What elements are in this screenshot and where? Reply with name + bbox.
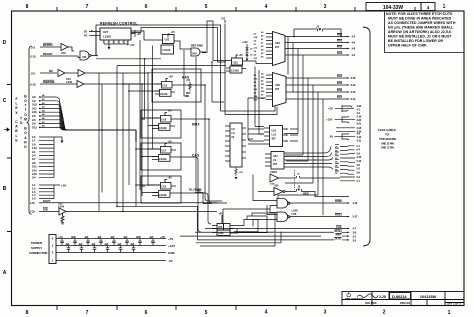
svg-text:.1μF: .1μF — [123, 236, 128, 239]
flex cable to top board label — [378, 128, 397, 141]
svg-text:3-16: 3-16 — [351, 76, 356, 80]
svg-text:U31: U31 — [165, 38, 170, 42]
svg-text:U24: U24 — [274, 185, 279, 188]
svg-text:SUPPLY: SUPPLY — [31, 246, 42, 250]
wire riser 99 — [98, 73, 100, 212]
svg-text:LS04: LS04 — [66, 80, 73, 84]
svg-text:U36: U36 — [292, 212, 297, 216]
wire din long to u35 — [216, 210, 218, 212]
svg-text:DWG NO: DWG NO — [400, 302, 410, 305]
zone letters left — [3, 40, 7, 276]
ground arrow — [61, 141, 64, 144]
svg-text:3-20: 3-20 — [357, 118, 362, 122]
U30 input net names — [261, 73, 265, 101]
svg-text:2-2: 2-2 — [31, 45, 35, 49]
ff U17 CAS — [148, 144, 176, 162]
svg-text:LS1: LS1 — [272, 134, 277, 137]
wire nand out up — [95, 30, 97, 56]
mux U30 — [273, 73, 287, 107]
svg-text:5: 5 — [118, 42, 119, 44]
svg-text:104-33W: 104-33W — [383, 5, 404, 11]
ladder rail — [53, 137, 55, 178]
svg-text:+12V: +12V — [326, 117, 333, 121]
U29 input pin labels — [254, 34, 259, 61]
latch cross wiring — [253, 175, 290, 227]
svg-text:1: 1 — [448, 310, 451, 316]
section box CAS — [141, 143, 181, 170]
wire vbus 123 — [122, 73, 124, 212]
svg-text:LS04: LS04 — [58, 205, 65, 208]
svg-text:FLEX CABLE: FLEX CABLE — [378, 128, 396, 132]
zone numbers top — [26, 4, 446, 10]
wire WRT out — [180, 235, 321, 237]
svg-text:1-15: 1-15 — [30, 201, 35, 205]
svg-text:7: 7 — [86, 310, 89, 316]
svg-text:.1μF: .1μF — [78, 243, 83, 246]
buffer U40a — [61, 44, 74, 52]
svg-text:U35: U35 — [218, 227, 223, 229]
ic U35 — [212, 215, 234, 236]
left brace — [27, 46, 32, 215]
svg-text:8: 8 — [26, 4, 29, 10]
address wires fan — [39, 97, 136, 142]
svg-text:RC: RC — [84, 35, 88, 38]
svg-text:Ø2: Ø2 — [49, 69, 53, 73]
svg-text:257: 257 — [275, 87, 280, 91]
svg-text:U52: U52 — [273, 155, 278, 158]
arrowheads RA4-7 — [347, 77, 350, 100]
svg-text:U27: U27 — [103, 30, 109, 34]
svg-text:A: A — [3, 270, 7, 276]
svg-text:3-6: 3-6 — [221, 17, 225, 21]
svg-text:3: 3 — [324, 4, 327, 10]
svg-text:-5V: -5V — [329, 134, 333, 138]
wire ras ff out — [176, 85, 222, 201]
arrowheads RA0-3 — [347, 36, 350, 56]
svg-text:MUX: MUX — [192, 123, 200, 127]
pins 4-x for RA0-3 — [352, 34, 356, 57]
svg-text:3-18: 3-18 — [357, 126, 362, 130]
svg-text:3-10: 3-10 — [357, 155, 362, 159]
wire RA7 — [286, 98, 347, 100]
svg-text:+5V: +5V — [169, 76, 174, 79]
wire drop x298 — [284, 49, 298, 134]
svg-text:+5V: +5V — [168, 141, 173, 144]
svg-text:U18: U18 — [162, 186, 167, 189]
svg-text:ARROW ON ARTWORK) ALSO J2,5,6: ARROW ON ARTWORK) ALSO J2,5,6 — [388, 30, 451, 34]
wire mux ff out — [176, 119, 227, 203]
svg-text:RFRTN: RFRTN — [43, 43, 52, 47]
svg-text:2-11: 2-11 — [32, 165, 37, 169]
arrowheads address rows — [39, 96, 42, 128]
svg-text:MUST BE INSTALLED, J2 OR 6 MUS: MUST BE INSTALLED, J2 OR 6 MUST — [388, 35, 452, 39]
svg-text:U30: U30 — [275, 83, 280, 87]
wire verticals center drops — [212, 62, 224, 102]
zone tick bottom — [57, 306, 296, 311]
svg-text:READY: READY — [43, 52, 53, 56]
wire U27 to U31 — [131, 31, 163, 40]
svg-text:2-15: 2-15 — [32, 172, 37, 176]
bypass capacitors row2 — [67, 246, 71, 253]
node 2-10 RNWSEL wire — [40, 83, 77, 85]
svg-text:.1μF: .1μF — [97, 236, 102, 239]
svg-text:.1μF: .1μF — [149, 236, 154, 239]
address pin rows 3-8..2-9 — [32, 95, 37, 129]
svg-text:UPPER HALF OF CHIP.: UPPER HALF OF CHIP. — [388, 44, 427, 48]
wire u28 down — [195, 57, 197, 190]
svg-text:LS109: LS109 — [159, 158, 167, 161]
+5v U31 — [168, 34, 170, 38]
ic U31b LS153 — [264, 126, 287, 147]
+5V ladder — [39, 185, 60, 199]
svg-text:U51: U51 — [272, 130, 277, 133]
svg-text:3-13: 3-13 — [351, 83, 356, 87]
wire riser 144 — [144, 59, 146, 118]
power rails — [56, 239, 166, 261]
svg-text:4: 4 — [265, 4, 268, 10]
wire drop x318 — [278, 92, 318, 199]
svg-text:+5V: +5V — [130, 44, 135, 47]
svg-text:SCH DWG: SCH DWG — [365, 302, 377, 305]
ground U21 — [235, 177, 238, 180]
wire 3-6 drop — [224, 24, 226, 115]
svg-text:4-12: 4-12 — [353, 201, 358, 205]
wire drop x313 — [285, 85, 313, 183]
U27 input arrow — [89, 31, 100, 36]
svg-text:POWER: POWER — [31, 241, 43, 245]
svg-text:LS161: LS161 — [103, 35, 112, 39]
zone tick left — [7, 85, 12, 232]
svg-text:LS367: LS367 — [270, 171, 278, 174]
buffer U40b — [58, 70, 148, 77]
svg-text:+5V: +5V — [61, 184, 66, 188]
ff U18 DLYENB — [148, 180, 176, 198]
svg-text:LS109: LS109 — [159, 194, 167, 197]
svg-text:4-11: 4-11 — [357, 138, 362, 142]
svg-text:+5V: +5V — [186, 80, 191, 82]
svg-text:LS109: LS109 — [160, 93, 168, 96]
svg-text:.1μF: .1μF — [110, 236, 115, 239]
U29 outputs to RA0-RA3 — [285, 29, 347, 55]
U27 bottom stubs — [104, 40, 128, 47]
wire cas ff to right — [175, 157, 201, 232]
svg-text:+5V: +5V — [328, 106, 333, 110]
svg-text:.1μF: .1μF — [65, 243, 70, 246]
flex cable bottom board label — [15, 94, 28, 149]
svg-text:1: 1 — [103, 42, 104, 44]
svg-text:9: 9 — [127, 42, 128, 44]
svg-text:LS109: LS109 — [231, 68, 239, 72]
svg-text:1-10: 1-10 — [32, 146, 37, 150]
svg-text:U16: U16 — [162, 119, 167, 122]
wire sel lines — [221, 107, 278, 115]
junction hbus59 — [144, 58, 146, 60]
svg-text:LS109: LS109 — [159, 127, 167, 130]
net labels RA0-RA3 — [337, 33, 343, 56]
svg-text:TOP BOARD: TOP BOARD — [379, 137, 397, 141]
wire into u36 from left — [223, 209, 270, 224]
svg-text:+12V: +12V — [168, 244, 175, 248]
U30 input stubs — [266, 75, 273, 100]
grounded pin rows — [32, 135, 37, 180]
svg-text:RAS: RAS — [182, 76, 189, 80]
wire RA1 — [285, 42, 347, 44]
wire hbus 65 — [117, 65, 226, 67]
section box RAS — [152, 69, 201, 102]
svg-text:4-10: 4-10 — [357, 135, 362, 139]
ff U33 — [226, 55, 247, 73]
wire hbus 72 ext — [148, 72, 226, 74]
U32b outputs fan to pins — [284, 147, 333, 170]
wire refenb down — [184, 50, 189, 96]
svg-text:5: 5 — [205, 310, 208, 316]
wire top run 3 — [202, 21, 226, 61]
wire vbus 129 — [128, 84, 130, 185]
section box MUX — [141, 110, 181, 138]
note text block — [386, 12, 456, 48]
wire riser 140 — [139, 40, 141, 190]
svg-text:367: 367 — [273, 163, 278, 166]
svg-text:U17: U17 — [162, 150, 167, 153]
jumper J8 — [297, 176, 300, 178]
resistor R30 — [235, 167, 238, 176]
svg-text:8: 8 — [26, 310, 29, 316]
svg-text:NOTE: FOR 4115'S THREE ETCH CU: NOTE: FOR 4115'S THREE ETCH CUTS — [386, 12, 453, 16]
vertical bus lines left of FF column — [99, 66, 226, 212]
wire u21 outs — [248, 129, 264, 144]
ff U16 MUX — [148, 113, 176, 131]
wire RA5 — [286, 84, 347, 86]
wire RA0 — [285, 29, 347, 37]
nand U30 — [80, 30, 96, 60]
wire ff input ties — [123, 84, 162, 193]
svg-text:U30: U30 — [82, 56, 87, 59]
svg-text:RNWSEL: RNWSEL — [43, 80, 55, 84]
wire riser 102 — [101, 84, 103, 193]
revision arrow left margin — [4, 128, 9, 131]
svg-text:5-10: 5-10 — [357, 159, 362, 163]
svg-text:+5V: +5V — [171, 31, 176, 34]
apple logo — [347, 292, 351, 296]
nand U36a — [277, 199, 290, 209]
wire RFSH out — [195, 231, 334, 233]
signature — [357, 294, 378, 298]
svg-text:1: 1 — [443, 4, 446, 10]
svg-text:REF ENB: REF ENB — [191, 44, 203, 48]
gnd J5 — [246, 59, 249, 62]
svg-text:.1μF: .1μF — [91, 243, 96, 246]
svg-text:SHT 1 OF 3: SHT 1 OF 3 — [447, 302, 461, 306]
node 2-13 READY wire — [40, 56, 80, 58]
svg-text:LS08: LS08 — [218, 233, 224, 235]
svg-text:6: 6 — [145, 310, 148, 316]
address bus run — [66, 129, 136, 131]
ff U15 RAS — [155, 79, 176, 97]
U30 outputs RA4-RA7 — [286, 78, 347, 99]
svg-text:REF: REF — [186, 93, 191, 95]
etch cut dashed line — [294, 170, 296, 190]
svg-text:3-22: 3-22 — [357, 104, 362, 108]
node 2-5 phase2 wire — [40, 72, 57, 74]
title block — [342, 292, 464, 306]
wire vbus 117 — [116, 66, 118, 207]
svg-text:104133W: 104133W — [420, 294, 437, 299]
wire bottom bus B — [196, 232, 281, 243]
svg-text:BE INSTALLED FOR LOWER OR: BE INSTALLED FOR LOWER OR — [388, 39, 443, 43]
bypass capacitors row1 — [60, 239, 155, 253]
svg-text:3-14: 3-14 — [351, 97, 356, 101]
wire RA3 — [285, 54, 347, 56]
svg-text:4: 4 — [265, 310, 268, 316]
connector J power — [49, 235, 56, 264]
svg-text:3: 3 — [324, 310, 327, 316]
svg-text:5: 5 — [205, 4, 208, 10]
svg-text:DOUT: DOUT — [43, 199, 51, 203]
svg-text:3-11: 3-11 — [32, 106, 37, 110]
svg-text:+5V: +5V — [168, 237, 173, 241]
wire top run 1 — [96, 25, 221, 111]
right brace — [363, 27, 370, 246]
wire CAS out — [205, 228, 349, 230]
ff U31 — [161, 35, 174, 55]
wire GND out — [230, 239, 334, 241]
+5v stub U27 — [131, 30, 135, 37]
power supply connector label — [29, 241, 48, 255]
svg-text:47μF: 47μF — [136, 236, 142, 239]
wire U31 to U28 — [174, 41, 191, 49]
buffer U34a — [270, 174, 283, 182]
wire drop x288 — [287, 37, 289, 75]
svg-text:3-17: 3-17 — [353, 215, 358, 219]
wire RA2 — [285, 48, 347, 50]
pins 3-x for RA4-7 — [351, 76, 356, 101]
svg-text:D: D — [3, 40, 7, 46]
wire RAS0 — [290, 202, 349, 204]
wire u34a to pin — [283, 177, 341, 179]
svg-text:6: 6 — [145, 4, 148, 10]
svg-text:2-14: 2-14 — [32, 168, 37, 172]
nand U36b — [277, 212, 290, 222]
svg-text:ONE 22 PIN: ONE 22 PIN — [381, 143, 394, 146]
wire RAS1 — [290, 216, 349, 218]
svg-text:.1μF: .1μF — [84, 236, 89, 239]
buffer U40c — [77, 81, 142, 88]
wire RA4 — [286, 77, 347, 79]
svg-text:LS: LS — [232, 132, 236, 135]
svg-text:367: 367 — [272, 138, 277, 141]
wire u33 to u29 — [247, 61, 273, 64]
buffer U32 din — [39, 208, 217, 224]
counter U27 — [100, 28, 131, 40]
svg-text:CONNECTOR: CONNECTOR — [29, 251, 48, 255]
svg-text:+12V: +12V — [242, 41, 248, 44]
U29 input net names — [261, 31, 264, 59]
nested feedback loops — [234, 213, 275, 233]
ic U21 — [225, 123, 246, 167]
svg-text:2-16: 2-16 — [32, 110, 37, 114]
svg-text:+5V: +5V — [168, 110, 173, 113]
svg-text:U29: U29 — [275, 41, 280, 45]
wire hbus 59 — [96, 58, 161, 60]
svg-text:3-19: 3-19 — [357, 114, 362, 118]
svg-text:3-21: 3-21 — [357, 121, 362, 125]
gnd U27 — [108, 47, 111, 50]
wire riser 152 — [152, 46, 154, 150]
top-right id box — [366, 3, 435, 11]
svg-text:2-28: 2-28 — [379, 295, 386, 299]
svg-text:7: 7 — [86, 4, 89, 10]
wire vbus 148 — [147, 73, 149, 186]
svg-text:GND: GND — [168, 251, 176, 255]
and gate U28 — [191, 48, 206, 56]
junction dots — [96, 36, 295, 212]
rail labels — [168, 237, 176, 263]
junction u31 in — [152, 65, 154, 67]
svg-text:3-15: 3-15 — [351, 90, 356, 94]
svg-text:.1μF: .1μF — [130, 243, 135, 246]
wire drop x323 — [322, 99, 324, 215]
svg-text:U33: U33 — [233, 60, 238, 64]
misc pins row — [336, 128, 355, 132]
svg-text:+5V: +5V — [137, 33, 142, 36]
svg-text:3: 3 — [108, 42, 109, 44]
svg-text:LS: LS — [273, 159, 277, 162]
wire vbus 136 — [135, 130, 137, 206]
wire u31b outs to gates — [288, 128, 290, 130]
wire bottom bus C — [200, 233, 275, 246]
data pin fan D0-D7 — [335, 147, 338, 176]
overline RFRTN — [43, 42, 52, 44]
mux U29 — [273, 32, 286, 66]
wire drop x303 — [285, 55, 303, 155]
svg-text:apple computer inc: apple computer inc — [345, 297, 364, 300]
svg-text:FLEX CABLE: FLEX CABLE — [15, 97, 19, 143]
note box — [385, 11, 465, 53]
svg-text:47μF: 47μF — [71, 236, 77, 239]
svg-text:U40: U40 — [61, 51, 66, 55]
svg-text:BOTTOM BOARD: BOTTOM BOARD — [24, 94, 28, 149]
svg-text:.1μF: .1μF — [104, 243, 109, 246]
net labels RA4-RA7 — [337, 74, 343, 99]
svg-text:257: 257 — [275, 45, 280, 49]
svg-text:2: 2 — [383, 310, 386, 316]
svg-text:B: B — [3, 186, 7, 192]
wire dlyenb to right — [175, 193, 211, 224]
capacitor value labels — [58, 236, 165, 246]
wire RA6 — [286, 91, 347, 93]
svg-text:LS109: LS109 — [163, 48, 171, 52]
svg-text:IN: IN — [186, 96, 189, 98]
svg-text:ONE 11 PIN: ONE 11 PIN — [381, 147, 394, 150]
overline RNWSEL — [43, 79, 54, 81]
svg-text:2-12: 2-12 — [32, 125, 37, 129]
svg-text:+5V: +5V — [239, 54, 244, 57]
svg-text:C: C — [3, 98, 7, 104]
zone numbers bottom — [26, 310, 451, 317]
wire drop x308 — [286, 78, 308, 161]
pins extra rows — [340, 177, 355, 181]
svg-text:2-5: 2-5 — [31, 71, 35, 75]
svg-text:U28: U28 — [192, 53, 197, 56]
svg-text:2-13: 2-13 — [30, 54, 36, 58]
address net names — [42, 94, 45, 127]
svg-text:1-18: 1-18 — [30, 210, 35, 214]
svg-text:TO: TO — [19, 116, 23, 125]
svg-text:NO μm. (THESE ARE MARKED SMALL: NO μm. (THESE ARE MARKED SMALL — [388, 26, 454, 30]
svg-text:AS CONNECTED JUMPER WIRES WITH: AS CONNECTED JUMPER WIRES WITH — [388, 21, 456, 25]
svg-text:.1μF: .1μF — [117, 243, 122, 246]
section box DLYENB — [141, 176, 181, 203]
